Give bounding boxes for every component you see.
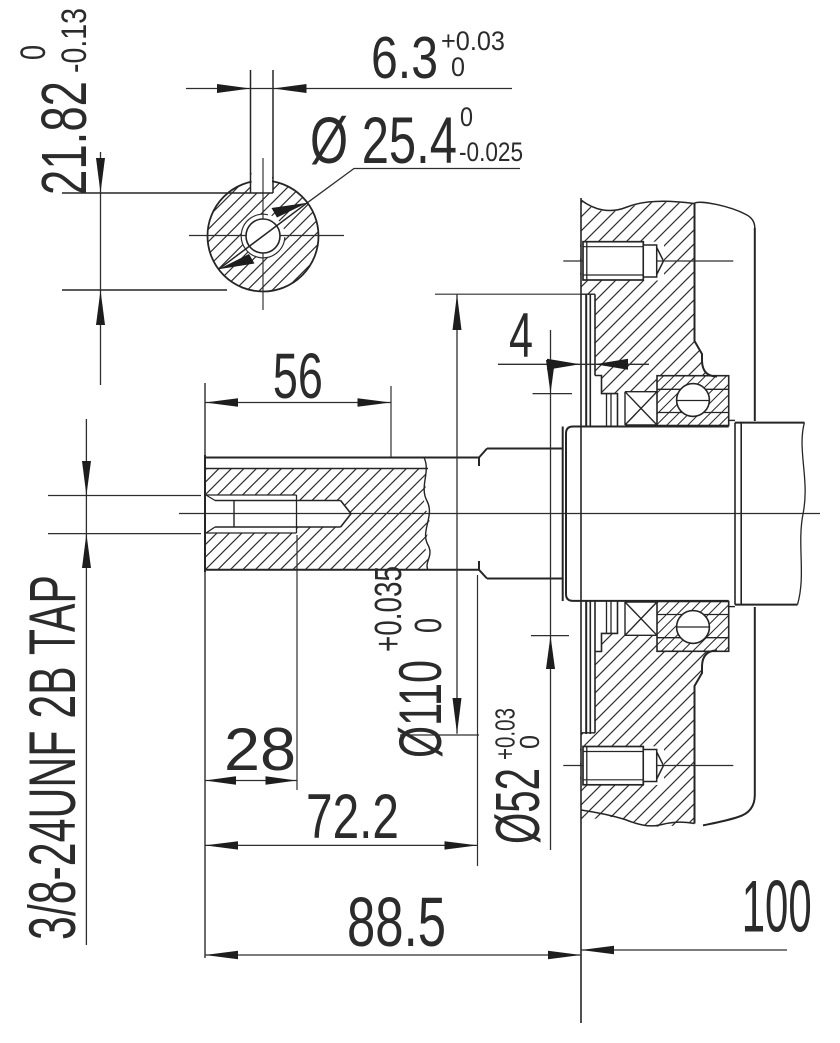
upper stud thread lines [583, 247, 643, 275]
upper bearing hatching [657, 376, 729, 426]
lower bearing hatching [657, 602, 729, 652]
case hatching upper [578, 196, 718, 396]
arrow up [453, 294, 462, 330]
journal sleeve rounded rect [566, 427, 729, 601]
svg-text:100: 100 [742, 867, 812, 948]
tapped hole inner circle [246, 219, 280, 253]
case mounting face line (datum) [580, 198, 582, 1023]
shaft hatching [203, 466, 433, 572]
dim line 88.5 [205, 954, 581, 956]
svg-text:3/8-24UNF 2B TAP: 3/8-24UNF 2B TAP [15, 575, 89, 940]
arrow right [445, 841, 478, 849]
ext line right 56 [390, 386, 392, 457]
text O52 rotated [484, 708, 553, 844]
lower stud tip section [643, 750, 656, 782]
mid section top edge [487, 448, 563, 450]
thread major line bottom [205, 532, 297, 534]
ext line bottom [400, 734, 479, 736]
leader line to Ø25.4 text [307, 169, 520, 203]
svg-text:88.5: 88.5 [347, 883, 446, 961]
lower stud thread lines [583, 752, 643, 780]
svg-text:6.3: 6.3 [371, 25, 438, 91]
arrow left [205, 841, 238, 849]
spigot step upper [595, 376, 618, 427]
arrowhead down-left on circle [219, 254, 255, 269]
arrow right toward face [547, 359, 580, 370]
lower bearing race lines [657, 615, 729, 638]
arrow up to shaft bottom [96, 290, 105, 325]
journal-web fillet top [729, 419, 735, 421]
dim line vertical 21.82 [100, 152, 102, 385]
svg-text:+0.035: +0.035 [368, 566, 410, 652]
centerline vertical [262, 158, 264, 310]
upper ball split line [677, 400, 709, 402]
shoulder edge top short [478, 458, 480, 467]
upper bearing ball [677, 384, 710, 417]
ext line top [48, 495, 201, 497]
crank web face lower [703, 607, 755, 825]
lower bearing ball [677, 611, 710, 644]
case top break contour [581, 200, 694, 211]
dim line 28 [205, 780, 297, 782]
keyway groove line [205, 468, 428, 470]
svg-text:+0.03: +0.03 [490, 708, 521, 760]
svg-text:-0.025: -0.025 [459, 137, 523, 167]
svg-text:-0.13: -0.13 [55, 8, 94, 73]
svg-text:28: 28 [224, 716, 296, 783]
crank tail break line [798, 423, 806, 605]
arrow left [205, 776, 236, 784]
diameter line Ø25.4 across circle [219, 203, 308, 270]
mid section bottom edge [487, 578, 563, 580]
case inner wall lower [695, 651, 718, 824]
main centerline [179, 513, 820, 515]
arrow up [82, 534, 91, 568]
upper bearing outer rect [657, 376, 729, 426]
case inner wall upper [695, 204, 718, 377]
crank tail bottom edge [735, 604, 798, 606]
svg-text:0: 0 [14, 45, 53, 60]
arrow right toward keyway left wall [217, 84, 251, 93]
upper bearing race lines [657, 389, 729, 412]
upper stud centerline [563, 260, 733, 262]
crank disc face line [562, 427, 564, 602]
arrow right [266, 776, 297, 784]
arrow right [548, 951, 581, 959]
crank web face upper [754, 228, 756, 421]
arrow right 56 [358, 398, 391, 407]
text 21.82 rotated [14, 8, 100, 195]
lower stud centerline [563, 765, 733, 767]
arrow up to bottom ext [546, 636, 555, 669]
shoulder edge bottom short [478, 561, 480, 570]
arrow left toward face [581, 946, 614, 954]
upper stud body [583, 242, 643, 280]
dim line 72.2 [205, 844, 478, 846]
crank disc face line 3 [590, 294, 595, 734]
arrow down [453, 698, 462, 734]
svg-text:Ø110: Ø110 [387, 660, 454, 758]
shaft outer circle Ø25.4 [208, 181, 319, 292]
keyway bottom line / ext line for 21.82 [62, 192, 273, 194]
arrowhead up-right on circle [272, 203, 308, 218]
seal lip lines upper [607, 394, 612, 426]
crank disc bottom edge [581, 732, 595, 734]
keyway side wall right / ext line for 6.3 [272, 70, 274, 193]
shaft top edge [205, 457, 479, 459]
journal-web fillet bottom [729, 606, 735, 608]
arrow left toward disc [595, 359, 628, 370]
dim line vertical [85, 419, 87, 945]
case hatching lower [578, 630, 718, 830]
lower stud point [657, 752, 664, 779]
entrance chamfer top [206, 495, 215, 501]
dim line 6.3 [186, 88, 512, 90]
break line (wavy) [424, 458, 430, 571]
svg-text:0: 0 [460, 102, 473, 132]
svg-text:0: 0 [514, 735, 545, 749]
thread major line top [205, 494, 297, 496]
arrow left [205, 951, 238, 959]
shaft bottom edge [205, 569, 479, 571]
ext line bottom of shaft for 21.82 [62, 289, 227, 291]
case bottom break contour [581, 810, 695, 826]
ext line thread depth [296, 535, 298, 790]
thread major circle [241, 214, 285, 258]
text thread callout rotated [15, 575, 89, 940]
spigot step lower [595, 601, 618, 652]
shaft end face / ext line [204, 383, 206, 958]
arrow down to keyway flat [96, 158, 105, 193]
svg-text:Ø52: Ø52 [484, 768, 553, 844]
lower stud body [583, 747, 643, 785]
hatching of shaft cross-section [200, 173, 326, 299]
arrow down to top ext [546, 360, 555, 394]
ext line shoulder [477, 575, 479, 866]
dim line 56 [205, 402, 391, 404]
counterbore step [233, 501, 235, 528]
dim line vertical [550, 330, 552, 850]
dim line vertical [456, 294, 458, 734]
lower stud end line [586, 747, 588, 785]
upper stud end line [586, 242, 588, 280]
journal right end double line [734, 423, 736, 605]
svg-text:0: 0 [408, 618, 450, 633]
seal lip lines lower [607, 601, 612, 633]
ext line top [533, 393, 573, 395]
dim line 4 [498, 363, 649, 365]
crank disc top edge [581, 293, 595, 295]
keyway side wall left / ext line for 6.3 [250, 70, 252, 193]
svg-text:56: 56 [273, 340, 323, 412]
upper seal box [625, 392, 657, 425]
upper stud tip section [643, 245, 656, 277]
drill hole top line [215, 500, 341, 502]
arrow left toward keyway right wall [273, 84, 307, 93]
svg-text:21.82: 21.82 [28, 81, 100, 195]
thread depth end line [296, 495, 298, 533]
ext line top [435, 293, 581, 295]
ext line bottom [531, 635, 569, 637]
crank disc face line 2 [585, 294, 587, 734]
centerline horizontal [189, 235, 344, 237]
lower seal box [625, 602, 657, 635]
svg-text:Ø 25.4: Ø 25.4 [310, 103, 457, 177]
drill point [341, 501, 351, 528]
svg-text:4: 4 [509, 301, 533, 371]
crank tail top edge [735, 422, 804, 424]
svg-text:72.2: 72.2 [306, 782, 399, 852]
dim line 100 [581, 949, 787, 951]
arrow left 56 [205, 398, 238, 407]
lower bearing outer rect [657, 602, 729, 652]
shoulder chamfer top [479, 449, 487, 458]
svg-text:0: 0 [451, 52, 465, 82]
lower ball split line [677, 626, 709, 628]
arrow down [82, 461, 91, 496]
entrance chamfer bottom [206, 527, 215, 533]
ext line bottom [48, 533, 201, 535]
upper stud point [657, 248, 664, 275]
shoulder chamfer bottom [479, 570, 487, 579]
drill hole bottom line [215, 526, 341, 528]
keyway void white-out [252, 168, 272, 193]
web top contour [694, 202, 755, 228]
text O110 rotated [368, 566, 454, 758]
